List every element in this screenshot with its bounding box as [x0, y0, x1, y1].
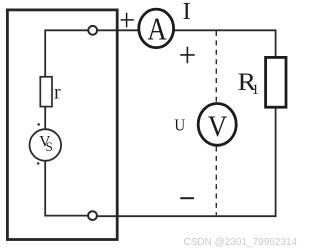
svg-text:V: V: [208, 111, 228, 144]
terminal top: [88, 26, 97, 35]
wire inner loop left: [45, 30, 92, 215]
polarity dot plus: [37, 123, 40, 126]
svg-text:U: U: [174, 117, 185, 135]
svg-text:1: 1: [252, 82, 260, 98]
terminal bottom: [88, 211, 97, 220]
polarity dot minus: [37, 162, 40, 165]
svg-text:r: r: [54, 82, 61, 103]
svg-text:CSDN @2301_79962314: CSDN @2301_79962314: [184, 237, 298, 248]
svg-text:A: A: [147, 13, 167, 48]
source Vs: [30, 129, 62, 161]
svg-text:S: S: [46, 139, 53, 154]
dashed measure line: [215, 31, 217, 215]
plus top: [121, 13, 134, 28]
wire outer loop: [93, 30, 276, 216]
resistor R1: [266, 57, 286, 107]
source box: [7, 10, 117, 240]
plus mid: [180, 47, 195, 64]
svg-text:I: I: [183, 0, 191, 25]
ammeter U1: [139, 9, 174, 48]
minus bottom: [180, 197, 194, 199]
resistor r: [40, 77, 52, 107]
voltmeter U2: [198, 104, 236, 146]
